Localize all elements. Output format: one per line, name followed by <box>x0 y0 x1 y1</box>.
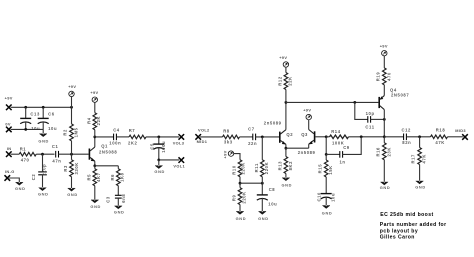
svg-text:Gilles Caron: Gilles Caron <box>380 235 415 241</box>
svg-text:47K: 47K <box>435 140 444 145</box>
svg-text:R8: R8 <box>223 128 230 133</box>
ground below C3 <box>114 206 125 215</box>
svg-text:GND: GND <box>15 186 26 191</box>
ground below C2 <box>38 188 49 197</box>
capacitor C7 22n <box>248 126 257 146</box>
svg-text:GND: GND <box>236 216 247 221</box>
svg-text:47n: 47n <box>52 159 61 164</box>
node Q2 collector rail <box>285 101 288 104</box>
capacitor C11 10p <box>365 111 374 130</box>
svg-text:GND: GND <box>282 183 293 188</box>
supply +9V circle above R2 <box>68 84 76 96</box>
ground below R3 <box>67 188 78 197</box>
svg-text:23K: 23K <box>387 147 392 156</box>
wire VOL2 to R8 <box>200 136 223 138</box>
svg-text:C12: C12 <box>402 128 412 133</box>
svg-text:R18: R18 <box>436 127 446 132</box>
svg-text:GND: GND <box>380 185 391 190</box>
wire R8 to C7 <box>240 136 253 138</box>
svg-text:6n8: 6n8 <box>121 194 126 203</box>
svg-text:220K: 220K <box>242 191 247 203</box>
svg-text:100u: 100u <box>161 141 166 153</box>
svg-text:15K: 15K <box>328 165 333 174</box>
resistor R8 3K3 <box>223 128 240 144</box>
svg-text:GND: GND <box>415 184 426 189</box>
resistor R10 220K <box>231 160 245 183</box>
node R2/R3 base junction <box>70 153 73 156</box>
svg-text:EC 25db mid boost: EC 25db mid boost <box>380 212 433 218</box>
wire node to C9 <box>326 153 340 155</box>
node C9/R15 <box>325 153 328 156</box>
capacitor C2 220p <box>31 154 47 188</box>
svg-text:220p: 220p <box>42 164 47 176</box>
svg-text:+9V: +9V <box>5 95 13 100</box>
supply +9V circle above R12 <box>279 55 288 67</box>
svg-text:C8: C8 <box>269 187 276 192</box>
svg-text:220K: 220K <box>241 162 246 174</box>
svg-text:C11: C11 <box>365 125 374 130</box>
node output row <box>383 135 386 138</box>
wire R18 to MID3 <box>448 136 463 138</box>
svg-text:R4: R4 <box>86 117 91 124</box>
wire R7 to VOL3 <box>146 136 179 138</box>
svg-text:+9V: +9V <box>303 107 311 112</box>
svg-text:10u: 10u <box>48 126 57 131</box>
terminal VOL3 (X) <box>173 134 185 145</box>
svg-text:+9V: +9V <box>90 90 98 95</box>
svg-text:MID3: MID3 <box>455 128 466 133</box>
svg-text:R12: R12 <box>277 76 282 86</box>
resistor R5 4K7 <box>86 166 101 200</box>
svg-text:C2: C2 <box>31 174 36 181</box>
svg-text:GND: GND <box>38 192 49 197</box>
node Q2 base <box>261 136 264 139</box>
svg-text:C10: C10 <box>316 192 321 202</box>
svg-text:+9V: +9V <box>223 150 228 158</box>
resistor R1 470 <box>19 147 36 163</box>
svg-text:2n5089: 2n5089 <box>298 150 316 155</box>
supply +9V circle above R4 <box>90 90 98 102</box>
svg-text:8K2: 8K2 <box>288 161 293 171</box>
svg-text:330K: 330K <box>74 162 79 174</box>
node C13 top <box>24 106 27 109</box>
svg-text:R1: R1 <box>20 147 27 152</box>
svg-text:Parts number added for: Parts number added for <box>380 222 447 228</box>
resistor R12 22K <box>277 67 292 102</box>
capacitor C6 10u <box>38 107 57 131</box>
capacitor C3 6n8 <box>105 194 126 206</box>
terminal VOL1 (X) <box>173 157 185 168</box>
wire 0V rail <box>11 128 44 130</box>
wire +9V rail top-left <box>11 106 72 108</box>
svg-text:C4: C4 <box>113 127 120 132</box>
svg-text:GND: GND <box>90 204 101 209</box>
svg-text:R9: R9 <box>231 195 236 202</box>
ground below R16 <box>380 182 391 190</box>
transistor Q4 2N5087 <box>378 88 409 110</box>
wire bias node across <box>240 182 262 184</box>
ground below C10 <box>322 205 333 215</box>
svg-text:R15: R15 <box>318 164 323 174</box>
svg-text:Q3: Q3 <box>301 132 308 137</box>
wire R14 to Q4 collector line <box>349 136 385 138</box>
svg-text:C6: C6 <box>48 111 55 116</box>
svg-text:GND: GND <box>154 169 165 174</box>
wire C11 right leg <box>371 118 385 120</box>
svg-text:22K: 22K <box>96 116 101 125</box>
wire Q1 emitter to R6 <box>95 165 119 167</box>
svg-text:100n: 100n <box>109 141 121 146</box>
svg-text:C7: C7 <box>248 126 255 131</box>
svg-text:22n: 22n <box>248 141 257 146</box>
resistor R18 47K <box>431 127 448 145</box>
capacitor C10 10u <box>316 192 335 206</box>
ground below C8 <box>258 211 269 221</box>
terminal +9V (X) <box>5 95 13 110</box>
capacitor C1 47n <box>52 144 62 164</box>
node C5 top <box>157 136 160 139</box>
svg-text:10p: 10p <box>366 111 375 116</box>
node C9 riser <box>360 135 363 138</box>
svg-text:VOL1: VOL1 <box>173 163 185 168</box>
svg-text:220K: 220K <box>264 162 269 174</box>
wire C4 to R7 <box>116 136 129 138</box>
resistor R2 1M5 <box>63 107 79 154</box>
ground below R9 <box>236 211 247 221</box>
resistor R17 47K <box>411 137 427 181</box>
ground below C6 <box>38 129 49 143</box>
wire Q3 base to R14 junction <box>315 136 326 138</box>
transistor Q1 2N5088 <box>89 144 118 162</box>
resistor R15 1K <box>318 154 333 193</box>
svg-text:C1: C1 <box>52 144 59 149</box>
svg-text:R11: R11 <box>254 163 259 172</box>
svg-text:3k3: 3k3 <box>224 140 233 145</box>
wire IN-G to ground <box>9 178 19 182</box>
wire to C12 <box>384 136 403 138</box>
svg-text:C13: C13 <box>30 111 40 116</box>
node Q1 collector <box>93 136 96 139</box>
capacitor C13 10u <box>20 107 40 131</box>
svg-text:R14: R14 <box>331 129 341 134</box>
supply +9V circle above R16 <box>380 43 388 56</box>
svg-text:2N5087: 2N5087 <box>391 93 409 98</box>
wire collector node to C4 <box>95 136 114 138</box>
ground below R13 <box>282 178 293 188</box>
wire IN to R1 <box>11 153 20 155</box>
svg-text:4K7: 4K7 <box>96 172 101 182</box>
wire Q1 collector up <box>94 137 96 147</box>
svg-text:22K: 22K <box>287 76 292 85</box>
wire to VOL1 <box>159 159 179 161</box>
supply +9V circle bias <box>223 150 234 158</box>
wire +9V circle to rail <box>71 96 73 107</box>
svg-text:GND: GND <box>38 138 49 143</box>
svg-text:IN-G: IN-G <box>5 169 15 174</box>
node Q3 base <box>325 135 328 138</box>
transistor Q2 2N5089 <box>264 120 293 144</box>
node C11 tap <box>353 101 356 104</box>
svg-text:R16: R16 <box>376 147 381 157</box>
svg-text:MID1: MID1 <box>197 139 208 144</box>
svg-text:R3: R3 <box>63 165 68 172</box>
svg-text:10u: 10u <box>331 193 336 202</box>
resistor R9 220K <box>231 183 246 211</box>
svg-text:C3: C3 <box>105 196 110 203</box>
svg-text:GND: GND <box>322 210 333 215</box>
node C2 top <box>41 153 44 156</box>
resistor R6 1K8 <box>110 166 125 196</box>
svg-text:2K2: 2K2 <box>128 140 138 145</box>
wire Q2 collector up <box>285 102 287 129</box>
transistor Q3 2N5089 (mirrored) <box>298 130 316 155</box>
supply +9V circle above Q3 <box>303 107 311 119</box>
wire C1 to Q1 base <box>59 153 89 155</box>
terminal VOL2 / MID1 (X) <box>195 128 210 145</box>
svg-text:+9V: +9V <box>279 55 287 60</box>
wire base node down <box>325 137 327 155</box>
wire C9 to riser <box>343 137 362 155</box>
svg-text:R7: R7 <box>129 128 136 133</box>
node R2 top / +9V junction <box>70 106 73 109</box>
wire emitters joined <box>286 147 309 149</box>
svg-text:82n: 82n <box>402 140 411 145</box>
svg-text:C9: C9 <box>343 145 350 150</box>
svg-text:R2: R2 <box>63 129 68 136</box>
ground below R17 <box>415 181 426 190</box>
wire C11 left leg <box>355 102 368 119</box>
node C11 to collector line <box>383 118 386 121</box>
svg-text:1M5: 1M5 <box>73 127 78 137</box>
wire R1 to C1 <box>36 153 54 155</box>
ground at IN-G <box>15 182 26 191</box>
terminal IN (X) <box>6 146 12 157</box>
svg-text:R17: R17 <box>411 154 416 164</box>
ground below C5 node <box>154 160 165 174</box>
svg-text:GND: GND <box>114 210 125 215</box>
node Q1 emitter <box>93 164 96 167</box>
svg-text:1K8: 1K8 <box>120 172 125 182</box>
node bias divider right <box>261 182 264 185</box>
wire C12 to R18 <box>406 136 430 138</box>
resistor R3 330K <box>63 154 79 188</box>
svg-text:2n5089: 2n5089 <box>264 120 282 125</box>
svg-text:2N5088: 2N5088 <box>99 150 117 155</box>
wire Q3 collector to +9V <box>308 120 310 130</box>
svg-text:VOL2: VOL2 <box>198 128 210 133</box>
node bias divider left <box>239 182 242 185</box>
capacitor C5 10u <box>149 137 166 160</box>
svg-text:R19: R19 <box>376 72 381 82</box>
svg-text:IN: IN <box>7 146 12 151</box>
capacitor C4 100n <box>109 127 121 145</box>
resistor R7 2K2 <box>128 128 146 145</box>
resistor R14 100K <box>326 129 348 146</box>
resistor R16 23K <box>376 137 392 182</box>
svg-text:10u: 10u <box>268 202 277 207</box>
node C6 top <box>42 106 45 109</box>
wire collector rail to Q4 base <box>286 101 379 103</box>
node R17 top <box>418 135 421 138</box>
svg-text:R6: R6 <box>110 174 115 181</box>
svg-text:470: 470 <box>387 72 392 81</box>
node C13 bottom <box>24 128 27 131</box>
wire +9V to R10 <box>234 154 241 160</box>
svg-text:47K: 47K <box>421 154 426 163</box>
wire Q1 emitter down <box>94 161 96 166</box>
svg-text:C5: C5 <box>149 143 154 150</box>
svg-text:+9V: +9V <box>68 84 76 89</box>
svg-text:0V: 0V <box>5 122 11 127</box>
node C5 bottom <box>157 159 160 162</box>
svg-text:R13: R13 <box>277 161 282 171</box>
svg-text:GND: GND <box>258 216 269 221</box>
resistor R13 8K2 <box>277 148 293 178</box>
wire Q2 emitter down <box>285 144 287 148</box>
wire C7 to Q2 base <box>256 136 279 138</box>
resistor R4 22K <box>86 102 101 137</box>
resistor R11 220K <box>254 137 269 183</box>
svg-text:+9V: +9V <box>380 43 388 48</box>
node Q2 emitter <box>285 147 288 150</box>
terminal 0V (X) <box>5 122 11 133</box>
wire Q3 emitter down <box>308 144 310 148</box>
svg-text:R10: R10 <box>231 165 236 175</box>
ground below R5 <box>90 200 101 209</box>
svg-text:Q2: Q2 <box>286 132 293 137</box>
svg-text:GND: GND <box>67 192 78 197</box>
svg-text:Q1: Q1 <box>101 144 108 149</box>
capacitor C9 1n <box>340 145 350 165</box>
svg-text:1n: 1n <box>340 160 346 165</box>
terminal IN-G (X) <box>5 169 15 181</box>
svg-text:R5: R5 <box>86 174 91 181</box>
svg-text:470: 470 <box>21 158 30 163</box>
wire Q4 collector down <box>383 110 385 137</box>
svg-text:10u: 10u <box>31 126 40 131</box>
capacitor C8 10u <box>257 183 278 211</box>
terminal MID3 (X) <box>455 128 468 140</box>
resistor R19 470 <box>376 56 392 96</box>
note text block <box>380 212 447 241</box>
capacitor C12 82n <box>402 128 412 145</box>
svg-text:VOL3: VOL3 <box>173 140 185 145</box>
